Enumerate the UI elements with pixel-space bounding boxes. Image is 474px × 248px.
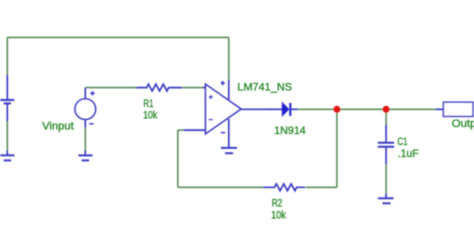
op-amp U1 LM741 — [203, 80, 267, 148]
wire feedback bottom to R2 — [178, 186, 264, 188]
wire C1 to ground — [385, 164, 387, 193]
wire R1 to op-amp + input — [182, 87, 205, 89]
wire diode to node A — [298, 108, 337, 110]
wire Vinput to R1 — [85, 87, 136, 89]
svg-text:10k: 10k — [271, 210, 286, 222]
resistor R1 — [137, 84, 183, 91]
wire feedback right vertical to node A — [336, 109, 338, 187]
wire Vinput to ground — [84, 128, 86, 151]
svg-text:C1: C1 — [398, 136, 408, 148]
node A junction dot — [333, 106, 340, 113]
wire op-amp inverting input — [178, 129, 184, 131]
wire node B to output — [386, 108, 436, 110]
ground (under C1) — [378, 193, 394, 203]
output box pin — [436, 108, 444, 110]
svg-text:LM741_NS: LM741_NS — [237, 82, 292, 94]
wire left vertical (battery to top rail) — [6, 37, 8, 75]
svg-text:Vinput: Vinput — [42, 121, 74, 133]
svg-text:Output: Output — [452, 118, 474, 130]
svg-text:R1: R1 — [143, 98, 153, 110]
wire node A to node B — [337, 108, 386, 110]
wire battery to ground — [6, 121, 8, 150]
wire top rail — [7, 36, 229, 38]
svg-text:.1uF: .1uF — [398, 148, 420, 160]
resistor R2 — [264, 184, 306, 191]
node B junction dot — [383, 106, 390, 113]
output box — [443, 102, 473, 116]
ground (under Vinput) — [78, 150, 92, 160]
wire node B to C1 — [385, 109, 387, 124]
voltage source Vinput — [75, 88, 96, 128]
ground (op-amp V-) — [221, 148, 237, 153]
svg-text:1N914: 1N914 — [274, 125, 306, 137]
wire feedback left vertical — [177, 130, 179, 187]
wire R2 to feedback right vertical — [306, 186, 337, 188]
battery V1 — [0, 75, 14, 121]
capacitor C1 — [378, 125, 394, 164]
diode D1 1N914 — [267, 103, 298, 116]
ground (left) — [0, 150, 14, 160]
svg-text:R2: R2 — [272, 198, 283, 210]
wire right vertical (top rail to op-amp V+) — [228, 37, 230, 80]
svg-text:10k: 10k — [143, 110, 158, 122]
op-amp inverting input pin — [184, 129, 206, 131]
